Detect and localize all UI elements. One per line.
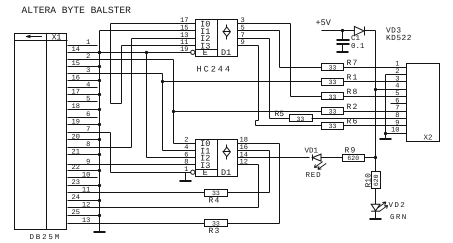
X1 pin 10 stub	[68, 171, 98, 179]
svg-text:24: 24	[72, 194, 80, 202]
D1 upper I/O labels	[200, 20, 210, 58]
wire: R2 to X2 pin 7	[344, 111, 407, 113]
svg-text:R7: R7	[347, 59, 359, 68]
LED VD1 RED	[312, 154, 342, 169]
wire: pin2 net branch to R2	[174, 111, 322, 113]
wire: X2 pins 2 and 10 to ground	[384, 75, 407, 139]
resistor R6 value 33	[322, 123, 344, 131]
X1 pin 20 stub	[68, 134, 100, 142]
svg-text:VD2: VD2	[389, 201, 407, 210]
X1 pin 4 stub	[68, 81, 98, 89]
svg-text:C1: C1	[351, 34, 361, 43]
X1 pin 5 stub	[68, 96, 98, 104]
diode VD3 KD522	[354, 26, 364, 35]
X1 pin 13 stub	[82, 217, 90, 225]
svg-text:33: 33	[329, 65, 337, 72]
svg-text:E: E	[203, 168, 208, 178]
resistor R5 value 33	[290, 115, 313, 123]
svg-text:11: 11	[82, 187, 90, 195]
ground symbol below C1	[337, 51, 349, 53]
svg-text:16: 16	[72, 74, 80, 82]
wire: R1 to X2 pin 3	[344, 81, 407, 83]
X2 pin 4 stub from +5V rail	[376, 89, 407, 91]
LED VD2 GRN	[371, 189, 388, 219]
wire: X1 pin 9 to D1 input I3 pin8	[68, 164, 196, 166]
svg-text:RED: RED	[306, 172, 322, 180]
D1 lower driver diamond symbol	[223, 145, 231, 160]
X2 pin 6 stub	[391, 103, 407, 105]
svg-text:33: 33	[329, 109, 337, 116]
X1 pin 25 stub	[68, 209, 100, 217]
svg-text:19: 19	[72, 118, 80, 126]
wire: R5 to X2 pin 8	[312, 118, 407, 120]
X1 pin 19 stub	[68, 118, 100, 126]
svg-text:9: 9	[86, 159, 90, 167]
wire: D1 output 18 through R3 to X1 pin 13	[68, 144, 280, 224]
wire: D1 output 7 to R5	[238, 39, 290, 119]
capacitor C1 0.1	[337, 31, 350, 53]
svg-text:18: 18	[72, 103, 80, 111]
ground symbol below VD2	[370, 218, 382, 220]
D1 lower right pin numbers 18 16 14 12	[240, 137, 248, 167]
svg-text:20: 20	[72, 134, 80, 142]
wire: VD3 cathode to +5V rail	[365, 31, 378, 172]
wire: rail top to D1 input I1 (pin 15)	[100, 30, 196, 32]
X1 pin 6 stub	[68, 111, 98, 119]
ground symbol below X2	[380, 138, 392, 140]
X1 pin 3 stub	[86, 67, 90, 75]
svg-text:33: 33	[296, 116, 304, 123]
wire: D1 output 16 through R4 to X1 pin 11	[68, 151, 270, 193]
X1 pin 14 stub	[68, 46, 100, 54]
resistor R3 value 33	[205, 220, 228, 228]
svg-text:620: 620	[347, 155, 359, 162]
svg-text:21: 21	[72, 149, 80, 157]
svg-text:1: 1	[86, 39, 90, 47]
X1 pin 9 stub	[86, 159, 90, 167]
D1 lower I/O labels	[200, 139, 210, 178]
wire: X1 pin 3 to D1 input I1 pin4	[68, 74, 196, 151]
svg-text:5: 5	[86, 96, 90, 104]
X1 pin 11 stub	[82, 187, 90, 195]
resistor R9 value 620	[343, 155, 365, 163]
D1 lower left pin numbers 2 4 6 8 1	[184, 137, 188, 174]
X1 pin 22 stub	[68, 164, 100, 172]
resistor R4 value 33	[205, 190, 228, 198]
wire: D1 output 3 through R8 to X2 pin 5	[238, 24, 407, 97]
svg-text:D1: D1	[221, 168, 231, 178]
svg-text:R8: R8	[347, 88, 359, 97]
svg-text:25: 25	[72, 209, 80, 217]
D1 upper right pin numbers 3 5 7 9	[241, 17, 245, 47]
svg-text:15: 15	[72, 60, 80, 68]
wire: pin3 net branch to R1	[163, 81, 322, 83]
svg-text:33: 33	[329, 123, 337, 130]
wire: D1 output 12 to X1 pin 12	[68, 165, 259, 208]
resistor R2 value 33	[322, 108, 344, 116]
D1 upper driver diamond symbol	[223, 25, 231, 40]
buffer D1 (74HC244) upper half body	[196, 20, 238, 57]
wire: X1 pin 8 to D1 input I2 pin13	[68, 39, 196, 148]
svg-text:ALTERA BYTE BALSTER: ALTERA BYTE BALSTER	[22, 5, 132, 16]
svg-text:4: 4	[86, 81, 90, 89]
wire: loopback D1 pin17 I0 to pin11 I3	[111, 24, 196, 104]
X1 pin 21 stub	[68, 149, 100, 157]
wire: X1 pin 2 to D1 input I0 pin2	[68, 60, 196, 144]
wire: X1 pin 14 to D1 enable E pin19 and input I2 pin6	[98, 51, 196, 158]
svg-text:X2: X2	[423, 133, 432, 142]
svg-text:R2: R2	[347, 103, 359, 112]
svg-text:17: 17	[72, 89, 80, 97]
svg-text:VD1: VD1	[305, 148, 319, 156]
D1 upper enable bubble	[191, 50, 195, 54]
resistor R1 value 33	[322, 79, 344, 87]
svg-text:R9: R9	[345, 146, 357, 155]
wire: +5V to VD3 anode	[322, 29, 355, 32]
svg-text:KD522: KD522	[386, 34, 412, 43]
svg-text:9: 9	[241, 39, 245, 47]
resistor R7 value 33	[322, 64, 344, 72]
svg-text:E: E	[203, 48, 208, 58]
X1 pin 8 stub	[86, 141, 90, 149]
svg-text:R10: R10	[364, 173, 373, 188]
X1 pin 23 stub	[68, 179, 100, 187]
wire: D1 output 5 through R7 to X2 pin 1	[238, 31, 407, 68]
wire: R9 to +5V rail	[365, 156, 378, 159]
wire: D1 output 14 to LED VD1 and R9	[238, 157, 310, 159]
svg-text:HC244: HC244	[197, 65, 233, 75]
svg-text:GRN: GRN	[390, 213, 408, 222]
svg-text:23: 23	[72, 179, 80, 187]
ground rail (X1 pins 14-25)	[98, 31, 101, 233]
svg-text:DB25M: DB25M	[30, 233, 62, 242]
X1 pin 15 stub	[68, 60, 100, 68]
svg-text:X1: X1	[52, 33, 62, 42]
buffer D1 (74HC244) lower half body	[196, 140, 238, 177]
D1 lower enable wire to ground	[186, 173, 191, 182]
svg-text:R6: R6	[347, 117, 359, 126]
connector X2 body	[407, 64, 440, 142]
svg-text:1: 1	[184, 166, 188, 174]
svg-text:+5V: +5V	[316, 18, 332, 28]
X1 pin 16 stub	[68, 74, 100, 82]
X1 header arrow	[26, 35, 42, 38]
X1 pin 12 stub	[82, 202, 90, 210]
svg-text:14: 14	[72, 46, 80, 54]
ground symbol at D1 lower enable	[180, 180, 192, 182]
svg-text:R1: R1	[347, 74, 359, 83]
X1 pin 1 stub	[68, 39, 98, 47]
svg-text:12: 12	[82, 202, 90, 210]
svg-text:620: 620	[373, 174, 380, 186]
svg-text:10: 10	[82, 171, 90, 179]
svg-text:R4: R4	[209, 197, 221, 206]
svg-text:R5: R5	[275, 110, 285, 119]
ground symbol below X1 rail	[94, 231, 106, 233]
svg-text:33: 33	[329, 79, 337, 86]
wire: X1 pin 7 to ground at D1 enable	[68, 133, 186, 173]
resistor R10 value 620 (vertical)	[372, 172, 381, 189]
svg-text:33: 33	[329, 94, 337, 101]
X1 pin 24 stub	[68, 194, 100, 202]
wire: D1 output 9 through R6 to X2 pin 9	[238, 46, 407, 126]
svg-text:12: 12	[240, 159, 248, 167]
X1 pin 17 stub	[68, 89, 100, 97]
D1 upper left pin numbers 17 15 13 11 19	[180, 17, 188, 54]
D1 lower enable bubble	[191, 170, 195, 174]
connector X1 DB25M body	[15, 34, 68, 230]
svg-text:R3: R3	[209, 227, 221, 236]
resistor R8 value 33	[322, 93, 344, 101]
svg-text:0.1: 0.1	[351, 42, 365, 51]
X1 pin 18 stub	[68, 103, 100, 111]
svg-text:6: 6	[86, 111, 90, 119]
svg-text:19: 19	[180, 46, 188, 54]
X1 pin 2 stub	[86, 53, 90, 61]
X1 pin 7 stub	[86, 126, 90, 134]
svg-text:D1: D1	[221, 48, 231, 58]
